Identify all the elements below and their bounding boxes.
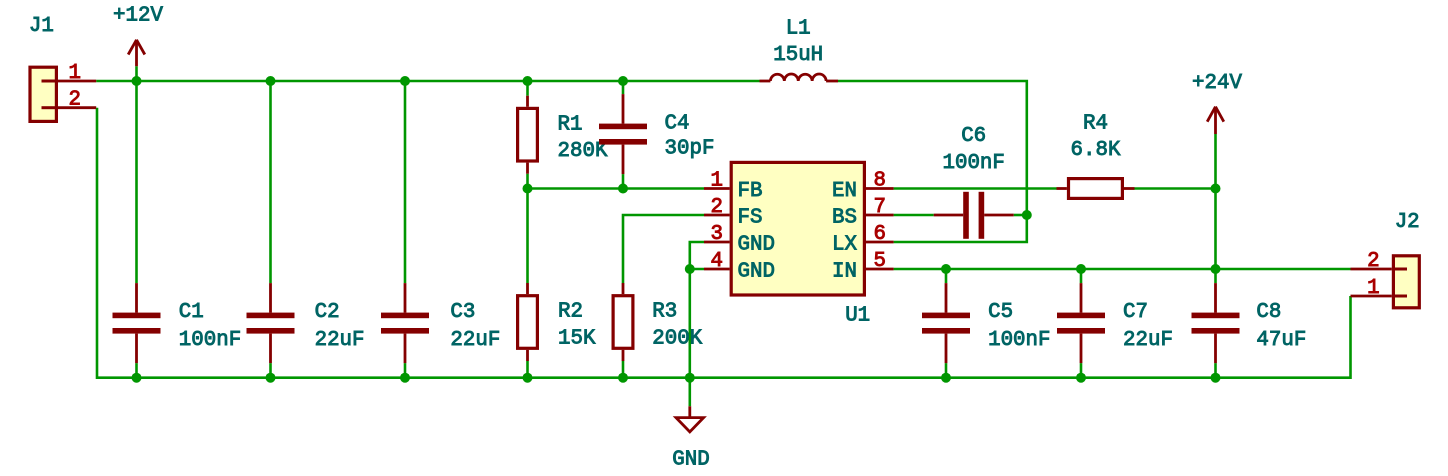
ground GND [672, 406, 709, 471]
svg-text:100nF: 100nF [988, 329, 1050, 352]
junction ground rail / GND [685, 373, 695, 383]
svg-text:2: 2 [711, 196, 723, 219]
svg-text:2: 2 [68, 89, 80, 112]
junction IN / C7 [1076, 264, 1086, 274]
svg-text:1: 1 [711, 170, 723, 193]
svg-text:J2: J2 [1395, 211, 1420, 234]
svg-text:FS: FS [738, 207, 763, 230]
svg-text:30pF: 30pF [665, 137, 715, 160]
U1 pin 2 stub [704, 214, 730, 217]
U1 pin 8 stub [866, 187, 894, 190]
wire +12V top rail [96, 80, 759, 83]
resistor R4 [1057, 112, 1135, 198]
junction ground rail / C5 [941, 373, 951, 383]
svg-text:200K: 200K [652, 328, 702, 351]
wire C3 bottom [404, 363, 407, 378]
junction IN / C8 [1211, 264, 1221, 274]
svg-text:1: 1 [1367, 277, 1379, 300]
svg-text:2: 2 [1367, 250, 1379, 273]
wire C6 to LX vertical [1014, 214, 1027, 217]
junction FB / C4 [618, 184, 628, 194]
inductor L1 [760, 18, 839, 82]
power +24V [1192, 72, 1242, 134]
svg-text:7: 7 [874, 196, 886, 219]
capacitor C6 [934, 125, 1014, 239]
svg-text:C2: C2 [315, 301, 340, 324]
U1 pin 4 stub [704, 268, 730, 271]
svg-text:+12V: +12V [113, 5, 163, 28]
wire C3 top [404, 81, 407, 283]
svg-text:IN: IN [832, 261, 857, 284]
U1 pin 5 stub [866, 268, 894, 271]
svg-text:J1: J1 [29, 15, 54, 38]
svg-text:U1: U1 [845, 305, 870, 328]
power +12V [113, 5, 163, 67]
svg-text:C8: C8 [1256, 301, 1281, 324]
wire GND pin3 to pin4 node [690, 242, 704, 269]
capacitor C7 [1057, 283, 1173, 363]
wire FS pin2 to R3 [623, 215, 704, 283]
svg-text:47uF: 47uF [1256, 329, 1306, 352]
junction GND pins node [685, 264, 695, 274]
wire rail to R1 [526, 81, 529, 96]
svg-text:FB: FB [738, 180, 763, 203]
junction top rail / C2 [266, 76, 276, 86]
svg-text:R2: R2 [558, 301, 583, 324]
resistor R3 [613, 283, 703, 361]
svg-text:C3: C3 [450, 301, 475, 324]
capacitor C3 [381, 283, 500, 363]
wire C2 bottom [269, 363, 272, 378]
junction top rail / C1 / +12V [132, 76, 142, 86]
junction ground rail / C2 [266, 373, 276, 383]
wire C8 top [1214, 269, 1217, 283]
wire R1 to FB node [526, 174, 529, 189]
capacitor C4 [599, 94, 714, 174]
wire FB line to pin1 [528, 187, 705, 190]
wire C4 to FB node [622, 174, 625, 188]
svg-text:8: 8 [874, 170, 886, 193]
U1 pin 1 stub [704, 187, 730, 190]
wire C7 bottom [1080, 363, 1083, 378]
svg-text:15K: 15K [558, 328, 596, 351]
svg-text:6: 6 [874, 223, 886, 246]
svg-text:1: 1 [68, 62, 80, 85]
svg-text:100nF: 100nF [179, 329, 241, 352]
junction top rail / R1 [523, 76, 533, 86]
wire R3 to ground rail [622, 361, 625, 378]
wire +12V arrow stem [135, 66, 138, 81]
resistor R1 [518, 96, 608, 174]
junction ground rail / C1 [132, 373, 142, 383]
wire C2 top [269, 81, 272, 283]
junction ground rail / C7 [1076, 373, 1086, 383]
wire C5 top [945, 269, 948, 283]
svg-text:4: 4 [711, 250, 723, 273]
resistor R2 [518, 283, 596, 361]
svg-text:EN: EN [832, 180, 857, 203]
wire FB node down to R2 [526, 189, 529, 284]
wire J1 pin2 to ground rail [97, 108, 1351, 378]
capacitor C8 [1192, 283, 1307, 363]
wire BS pin7 to C6 [894, 214, 934, 217]
wire IN line pin5 to J2 [894, 268, 1351, 271]
svg-text:+24V: +24V [1192, 72, 1242, 95]
wire +24V node down to IN line [1214, 189, 1217, 270]
svg-text:C4: C4 [665, 112, 690, 135]
svg-text:22uF: 22uF [315, 329, 365, 352]
svg-text:GND: GND [672, 449, 709, 472]
svg-text:5: 5 [874, 250, 886, 273]
wire C8 bottom [1214, 363, 1217, 378]
svg-text:L1: L1 [786, 18, 811, 41]
U1 pin 7 stub [866, 214, 894, 217]
wire R2 to ground rail [526, 361, 529, 378]
svg-text:15uH: 15uH [773, 44, 823, 67]
svg-text:C5: C5 [988, 301, 1013, 324]
svg-text:100nF: 100nF [942, 152, 1004, 175]
junction IN / C5 [941, 264, 951, 274]
wire ground rail to GND symbol [688, 378, 691, 407]
wire C1 top [135, 81, 138, 283]
U1 pin 6 stub [866, 241, 894, 244]
svg-text:GND: GND [738, 261, 775, 284]
svg-text:R1: R1 [558, 113, 583, 136]
wire C1 bottom [135, 363, 138, 378]
svg-text:R4: R4 [1083, 112, 1108, 135]
wire +24V arrow stem [1214, 134, 1217, 189]
svg-text:C7: C7 [1123, 301, 1148, 324]
capacitor C5 [922, 283, 1051, 363]
svg-text:22uF: 22uF [450, 329, 500, 352]
svg-text:C6: C6 [961, 125, 986, 148]
svg-text:BS: BS [832, 207, 857, 230]
junction EN / R4 / +24V [1211, 184, 1221, 194]
svg-text:22uF: 22uF [1123, 329, 1173, 352]
svg-text:3: 3 [711, 223, 723, 246]
svg-text:R3: R3 [652, 301, 677, 324]
svg-text:C1: C1 [179, 301, 204, 324]
junction top rail / C3 [400, 76, 410, 86]
op-amp U1 body [731, 162, 864, 295]
wire L1 output to LX corner [838, 81, 1027, 242]
U1 pin 3 stub [704, 241, 730, 244]
wire C5 bottom [945, 363, 948, 378]
junction top rail / C4 [618, 76, 628, 86]
svg-text:GND: GND [738, 234, 775, 257]
svg-text:LX: LX [832, 234, 857, 257]
capacitor C1 [113, 283, 242, 363]
wire GND node to ground rail [688, 269, 691, 378]
junction ground rail / R2 [523, 373, 533, 383]
connector J1 [29, 15, 96, 121]
wire R4 to +24V node [1135, 187, 1216, 190]
junction ground rail / C8 [1211, 373, 1221, 383]
junction ground rail / C3 [400, 373, 410, 383]
wire EN pin8 to R4 [894, 187, 1057, 190]
capacitor C2 [247, 283, 365, 363]
wire rail to C4 [622, 81, 625, 94]
junction FB / R1 / R2 [523, 184, 533, 194]
wire C7 top [1080, 269, 1083, 283]
junction BS / C6 / LX [1022, 210, 1032, 220]
connector J2 [1351, 211, 1420, 308]
svg-text:6.8K: 6.8K [1071, 139, 1121, 162]
junction ground rail / R3 [618, 373, 628, 383]
